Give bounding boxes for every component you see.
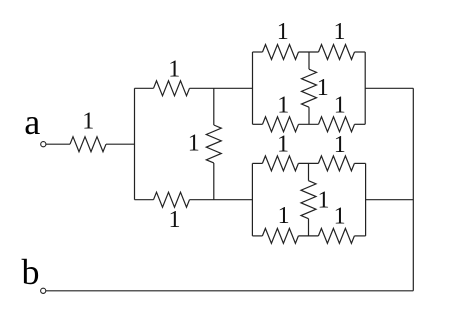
svg-text:1: 1 bbox=[169, 207, 181, 233]
svg-text:1: 1 bbox=[334, 19, 346, 45]
svg-text:1: 1 bbox=[334, 92, 346, 118]
svg-text:1: 1 bbox=[168, 56, 180, 82]
svg-text:1: 1 bbox=[277, 19, 289, 45]
svg-text:1: 1 bbox=[317, 75, 329, 101]
svg-text:1: 1 bbox=[278, 203, 290, 229]
svg-text:1: 1 bbox=[334, 132, 346, 158]
svg-text:1: 1 bbox=[188, 131, 200, 157]
svg-text:1: 1 bbox=[277, 132, 289, 158]
svg-text:b: b bbox=[22, 252, 40, 292]
svg-text:a: a bbox=[24, 102, 40, 142]
svg-text:1: 1 bbox=[318, 188, 330, 214]
svg-text:1: 1 bbox=[82, 109, 94, 135]
svg-text:1: 1 bbox=[277, 92, 289, 118]
svg-text:1: 1 bbox=[334, 204, 346, 230]
